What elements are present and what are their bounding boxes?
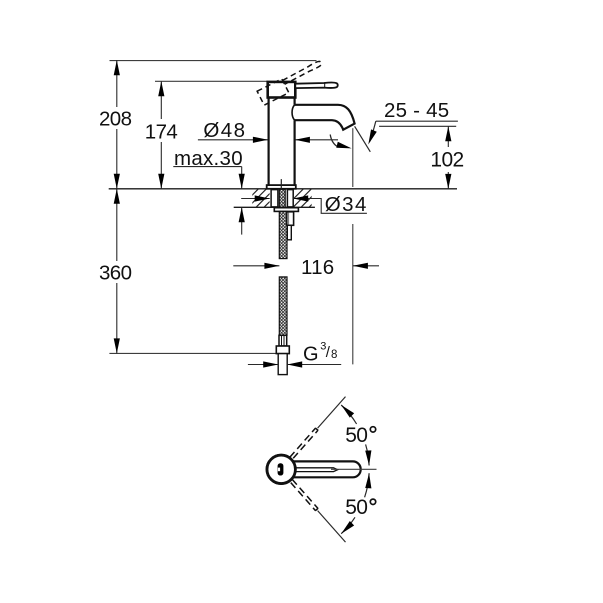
plan view lever outline (290, 461, 361, 477)
shank threaded rod (braided) (279, 189, 285, 207)
svg-text:360: 360 (99, 262, 132, 285)
dimension 208 arrows (114, 60, 120, 75)
plan view center line (331, 468, 377, 470)
flex hose lower (279, 277, 287, 335)
svg-text:116: 116 (301, 256, 334, 279)
deck hatching right (285, 189, 327, 207)
faucet body (269, 98, 295, 186)
dimension 116 right arrow (353, 265, 379, 267)
upper 50 deg arc (366, 444, 370, 465)
upper dashed lever (290, 428, 319, 460)
extension line 174 ref (155, 80, 268, 82)
flow arrow (330, 135, 338, 147)
deck top line (109, 188, 457, 190)
svg-text:8: 8 (331, 349, 337, 361)
outlet diagonal line (355, 126, 371, 152)
hose ferrule (279, 335, 287, 346)
G3/8 dimension left arrow (248, 364, 278, 366)
dimension 102 arrows (445, 126, 451, 141)
svg-text:25 - 45: 25 - 45 (384, 99, 449, 122)
svg-text:G: G (303, 343, 318, 365)
upper 50 deg leg line (318, 397, 346, 429)
dimension 208 line (116, 60, 118, 189)
spout (295, 105, 355, 130)
svg-text:Ø48: Ø48 (203, 119, 244, 142)
lower 50 deg arc (365, 473, 370, 497)
extension line 360 bottom ref (109, 352, 276, 354)
max.30 dimension bottom arrow (241, 207, 243, 234)
hose end tube (278, 354, 287, 375)
dia48 right arrow (295, 139, 338, 141)
shank right sleeve (287, 190, 293, 207)
dimension 102 line (447, 126, 449, 189)
hose nut G3/8 (276, 346, 289, 354)
plan view circle redrawn on top (267, 455, 295, 483)
spout root fillet arc (292, 105, 295, 120)
svg-text:208: 208 (99, 108, 132, 131)
svg-text:50: 50 (345, 424, 367, 447)
extension line top (lever max height ref) (110, 60, 317, 62)
spout reference vertical line upper (352, 128, 354, 187)
faucet cartridge housing (268, 82, 296, 98)
dashed lever and cartridge (raised position) (257, 60, 327, 105)
dia34 right arrow and leader (293, 199, 367, 214)
mounting stud cylinder (287, 212, 294, 226)
lower arc arrowheads (339, 521, 354, 536)
flex hose upper (279, 211, 287, 258)
plan view lever slot wedge (295, 468, 338, 472)
25-45 leader arrowhead (365, 129, 376, 145)
plan view circle (faucet body top) (267, 455, 295, 483)
mounting stud lower tube (287, 225, 291, 240)
25-45 leader curve (370, 121, 376, 142)
dimension 116 left arrow (233, 265, 279, 267)
upper arc arrowheads (339, 403, 354, 418)
shank left sleeve (271, 190, 278, 207)
25-45 underline (376, 120, 458, 122)
max.30 underline (173, 166, 241, 168)
dia48 left arrow (198, 139, 268, 141)
svg-text:102: 102 (430, 148, 463, 171)
dimension 174 line (160, 81, 162, 189)
dia34 left arrow (241, 198, 270, 200)
dimension 360 arrows (114, 189, 120, 204)
G3/8 dimension right arrow with underline (287, 364, 341, 366)
deck bottom line (234, 206, 315, 208)
lower dashed lever (290, 479, 319, 511)
plan view keyhole (278, 463, 284, 475)
lever joint line (324, 83, 326, 88)
mounting flange (274, 208, 298, 212)
lower 50 deg leg line (318, 511, 346, 542)
svg-text:Ø34: Ø34 (325, 193, 366, 216)
svg-text:174: 174 (145, 121, 178, 144)
spout reference vertical line lower (352, 224, 354, 364)
max.30 dimension top arrow (241, 167, 243, 189)
dimension 360 line (116, 189, 118, 354)
dimension 174 arrows (158, 81, 164, 96)
deck hatching left (240, 189, 282, 207)
lever solid (295, 83, 337, 89)
svg-text:50: 50 (345, 496, 367, 519)
faucet body center line (280, 179, 282, 189)
faucet base plate (267, 185, 296, 189)
25-45 outlet level line (379, 125, 456, 127)
